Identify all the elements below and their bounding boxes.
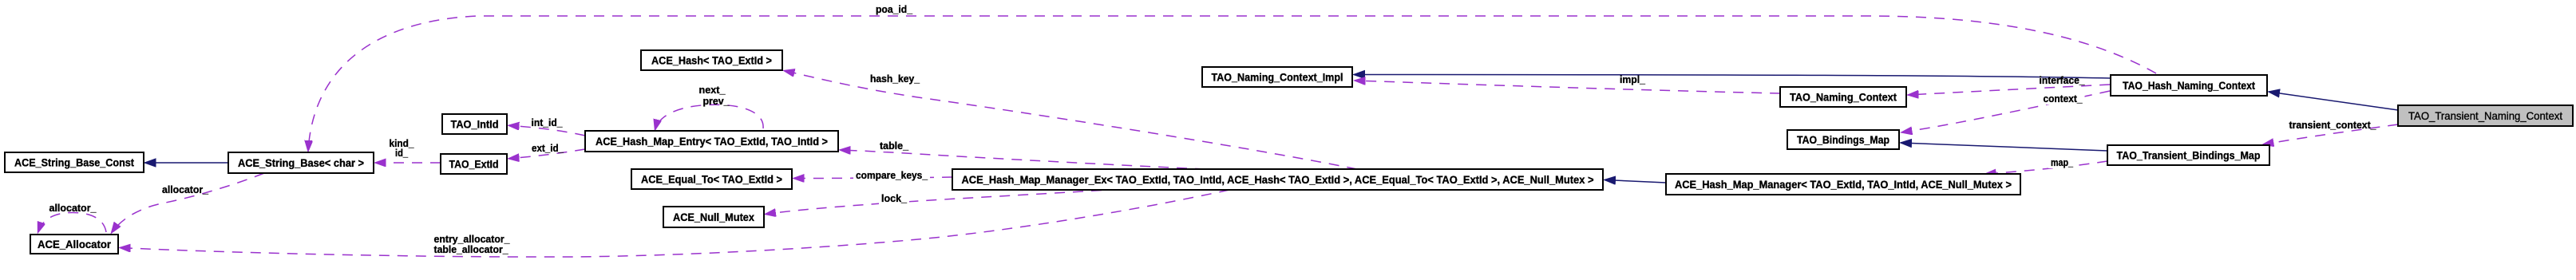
- svg-text:next_: next_: [699, 84, 726, 96]
- svg-text:table_allocator_: table_allocator_: [434, 243, 509, 255]
- svg-text:ACE_Equal_To< TAO_ExtId >: ACE_Equal_To< TAO_ExtId >: [641, 173, 782, 186]
- class box ACE_Null_Mutex: [663, 207, 764, 227]
- edge int_id_: [508, 125, 585, 136]
- svg-text:TAO_Naming_Context: TAO_Naming_Context: [1790, 91, 1897, 104]
- label prev_: [703, 95, 730, 107]
- class box TAO_IntId: [442, 114, 507, 134]
- edge kind_ id_: [375, 162, 441, 164]
- svg-text:ACE_Allocator: ACE_Allocator: [38, 238, 112, 250]
- svg-text:ACE_Hash_Map_Entry< TAO_ExtId,: ACE_Hash_Map_Entry< TAO_ExtId, TAO_IntId…: [596, 135, 828, 148]
- svg-text:ACE_Null_Mutex: ACE_Null_Mutex: [673, 211, 754, 223]
- svg-text:ACE_String_Base_Const: ACE_String_Base_Const: [14, 156, 134, 169]
- class box ACE_Hash: [641, 50, 782, 70]
- edge allocator_ self loop: [38, 213, 107, 233]
- label int_id_: [532, 116, 564, 128]
- svg-text:id_: id_: [395, 147, 409, 159]
- class box TAO_ExtId: [441, 154, 507, 174]
- svg-text:table_: table_: [880, 140, 909, 152]
- inheritance TAO_Hash_Naming_Context to TAO_Naming_Context_Impl: [1354, 75, 2111, 79]
- class box ACE_String_Base: [228, 152, 374, 173]
- svg-text:compare_keys_: compare_keys_: [856, 169, 928, 181]
- edge impl_: [1355, 81, 1780, 93]
- class box ACE_String_Base_Const: [5, 152, 144, 172]
- label next_: [699, 84, 726, 96]
- svg-text:lock_: lock_: [881, 192, 908, 204]
- class box TAO_Hash_Naming_Context: [2111, 75, 2267, 96]
- svg-text:ext_id_: ext_id_: [532, 142, 564, 154]
- label impl_: [1620, 73, 1646, 85]
- svg-text:ACE_Hash_Map_Manager< TAO_ExtI: ACE_Hash_Map_Manager< TAO_ExtId, TAO_Int…: [1675, 178, 2012, 191]
- edge next_ prev_ self loop: [655, 105, 764, 130]
- class box TAO_Naming_Context: [1780, 87, 1906, 107]
- svg-text:TAO_Naming_Context_Impl: TAO_Naming_Context_Impl: [1212, 71, 1343, 84]
- edge hash_key_: [784, 71, 1357, 170]
- edge context_: [1901, 91, 2110, 132]
- svg-text:poa_id_: poa_id_: [876, 3, 913, 15]
- edge lock_: [766, 191, 1102, 215]
- svg-text:ACE_Hash_Map_Manager_Ex< TAO_E: ACE_Hash_Map_Manager_Ex< TAO_ExtId, TAO_…: [962, 173, 1594, 186]
- label kind_: [390, 137, 415, 149]
- class box ACE_Hash_Map_Entry: [585, 131, 838, 152]
- label hash_key_: [870, 73, 920, 85]
- svg-text:int_id_: int_id_: [532, 116, 564, 128]
- svg-text:map_: map_: [2051, 156, 2074, 168]
- inheritance TAO_Transient_Naming_Context to TAO_Hash_Naming_Context: [2269, 92, 2398, 110]
- class box ACE_Equal_To: [631, 169, 792, 189]
- edge map_: [1985, 161, 2107, 174]
- class box TAO_Transient_Bindings_Map: [2107, 145, 2269, 165]
- class box TAO_Naming_Context_Impl: [1202, 67, 1352, 87]
- inheritance ACE_String_Base to ACE_String_Base_Const: [145, 162, 229, 164]
- label lock_: [879, 192, 909, 204]
- svg-text:TAO_Transient_Naming_Context: TAO_Transient_Naming_Context: [2408, 109, 2562, 122]
- svg-text:ACE_Hash< TAO_ExtId >: ACE_Hash< TAO_ExtId >: [651, 54, 772, 67]
- inheritance TAO_Transient_Bindings_Map to TAO_Bindings_Map: [1901, 143, 2107, 151]
- svg-text:TAO_ExtId: TAO_ExtId: [449, 158, 499, 171]
- svg-text:allocator_: allocator_: [49, 202, 97, 214]
- svg-text:hash_key_: hash_key_: [870, 73, 920, 85]
- svg-text:TAO_Bindings_Map: TAO_Bindings_Map: [1797, 133, 1889, 146]
- inheritance ACE_Hash_Map_Manager to ACE_Hash_Map_Manager_Ex: [1605, 180, 1666, 183]
- edge allocator_ from ACE_String_Base: [112, 173, 265, 233]
- label id_: [395, 147, 409, 159]
- class box ACE_Hash_Map_Manager: [1666, 174, 2020, 195]
- class box ACE_Hash_Map_Manager_Ex: [952, 169, 1603, 190]
- svg-text:context_: context_: [2044, 93, 2083, 105]
- class box TAO_Transient_Naming_Context: [2398, 105, 2573, 126]
- label poa_id_: [876, 3, 913, 15]
- label context_: [2041, 93, 2085, 105]
- svg-text:allocator_: allocator_: [162, 183, 209, 195]
- label compare_keys_: [853, 169, 930, 181]
- svg-text:TAO_IntId: TAO_IntId: [451, 118, 499, 131]
- class box ACE_Allocator: [30, 235, 118, 254]
- edge poa_id_: [308, 16, 2156, 152]
- svg-text:TAO_Hash_Naming_Context: TAO_Hash_Naming_Context: [2123, 79, 2255, 92]
- svg-text:ACE_String_Base< char >: ACE_String_Base< char >: [238, 156, 364, 169]
- edge interface_: [1908, 85, 2110, 95]
- label table_: [877, 140, 911, 152]
- label table_allocator_: [434, 243, 509, 255]
- label interface_: [2040, 74, 2086, 86]
- svg-text:transient_context_: transient_context_: [2289, 119, 2377, 131]
- svg-text:interface_: interface_: [2040, 74, 2086, 86]
- label allocator_: [162, 183, 209, 195]
- class box TAO_Bindings_Map: [1787, 130, 1899, 149]
- edge compare_keys_: [793, 177, 952, 179]
- label ext_id_: [532, 142, 564, 154]
- edge ext_id_: [508, 149, 585, 159]
- edge transient_context_: [2263, 124, 2398, 144]
- label allocator_: [49, 202, 97, 214]
- svg-text:prev_: prev_: [703, 95, 730, 107]
- edge entry_allocator_ table_allocator_: [120, 190, 1229, 257]
- label entry_allocator_: [434, 233, 511, 245]
- svg-text:impl_: impl_: [1620, 73, 1646, 85]
- label transient_context_: [2289, 119, 2377, 131]
- label map_: [2048, 156, 2075, 168]
- edge table_: [840, 150, 1205, 169]
- svg-text:TAO_Transient_Bindings_Map: TAO_Transient_Bindings_Map: [2117, 149, 2261, 162]
